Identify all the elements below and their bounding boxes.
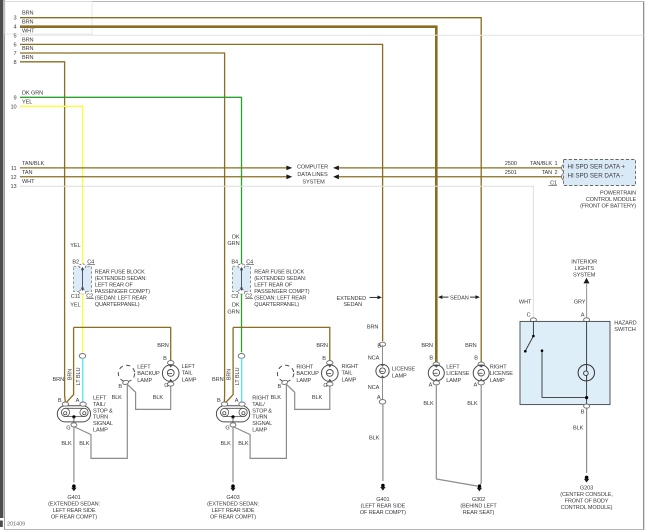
fuse block FB2 exit connector: [238, 290, 245, 295]
hazard switch lamp: [578, 365, 594, 381]
svg-text:TAIL/: TAIL/: [93, 402, 106, 408]
wire 10 YEL: [20, 106, 83, 264]
svg-text:PASSENGER COMPT): PASSENGER COMPT): [95, 289, 150, 295]
fuse block FB2 caption: [254, 269, 309, 308]
svg-text:BRN: BRN: [212, 377, 224, 383]
PCM pin 2 connector: [562, 174, 566, 180]
svg-text:LT BLU: LT BLU: [235, 368, 241, 386]
svg-text:TAIL: TAIL: [182, 371, 193, 377]
fuse block FB2 box: [233, 266, 251, 291]
svg-text:LICENSE: LICENSE: [392, 366, 415, 372]
wire 13 WHT: [20, 186, 533, 318]
svg-text:G403: G403: [226, 495, 239, 501]
svg-text:A: A: [581, 313, 585, 319]
svg-text:BRN: BRN: [316, 343, 328, 349]
node INTERIOR LIGHTS SYSTEM: [571, 260, 597, 284]
lamp E3 caption: [182, 364, 197, 383]
svg-text:GRN: GRN: [227, 241, 239, 247]
inline connector on left A wire: [79, 354, 86, 359]
svg-text:LICENSE: LICENSE: [446, 371, 469, 377]
hazard switch caption: [614, 321, 636, 333]
fuse block FB1 connector C2: [86, 294, 94, 300]
lamp E9 terminal B connector: [478, 362, 484, 366]
svg-text:G: G: [323, 383, 327, 389]
lamp E9 caption: [490, 365, 513, 384]
svg-text:B: B: [163, 356, 167, 362]
svg-text:LIGHTS: LIGHTS: [574, 266, 594, 272]
svg-text:B: B: [377, 344, 381, 350]
svg-text:C: C: [527, 313, 531, 319]
wire 12 TAN left segment: [20, 176, 286, 178]
svg-text:LEFT: LEFT: [446, 365, 460, 371]
svg-text:DK: DK: [232, 303, 240, 309]
lamp E4 terminal G connector: [230, 423, 236, 427]
svg-text:SEDAN: SEDAN: [343, 302, 362, 308]
lamp E5: RIGHT BACKUP LAMP: [277, 365, 293, 381]
fuse block FB1 internal arrow: [81, 267, 84, 291]
svg-text:11: 11: [11, 166, 17, 172]
svg-text:LEFT: LEFT: [93, 396, 107, 402]
lamp E5 caption: [296, 365, 319, 384]
svg-text:13: 13: [11, 184, 17, 190]
svg-text:NCA: NCA: [368, 355, 380, 361]
svg-text:1: 1: [555, 161, 558, 167]
ground G401 (license): [360, 484, 406, 516]
svg-text:LAMP: LAMP: [392, 373, 407, 379]
arrow left w12 right segment: [333, 174, 339, 179]
PCM caption: [580, 191, 636, 210]
svg-text:YEL: YEL: [70, 243, 80, 249]
hazard switch S1 box: [520, 321, 610, 404]
fuse block FB1 entry connector: [79, 264, 86, 269]
svg-text:12: 12: [11, 175, 17, 181]
lamp E5 terminal B connector: [281, 380, 288, 385]
svg-text:BLK: BLK: [153, 395, 164, 401]
svg-text:LEFT REAR SIDE: LEFT REAR SIDE: [53, 508, 96, 514]
lamp E1 caption: [93, 396, 113, 434]
svg-text:BLK: BLK: [238, 441, 249, 447]
wire LT BLU to lamp E4 terminal A: [241, 358, 243, 404]
wire 9 DK GRN: [20, 97, 242, 264]
svg-text:G203: G203: [580, 485, 593, 491]
lamp E6 bulb: [322, 365, 339, 382]
svg-text:(EXTENDED SEDAN:: (EXTENDED SEDAN:: [48, 502, 100, 508]
svg-text:GRY: GRY: [574, 299, 586, 305]
svg-text:YEL: YEL: [70, 302, 80, 308]
svg-text:LAMP: LAMP: [342, 377, 357, 383]
svg-text:DATA LINES: DATA LINES: [297, 172, 328, 178]
svg-text:GRN: GRN: [227, 309, 239, 315]
hazard switch contact dots: [532, 335, 535, 338]
hazard switch S1 terminal A connector: [584, 318, 590, 322]
fuse block FB2 connector C2: [245, 294, 253, 300]
svg-text:DK: DK: [232, 234, 240, 240]
svg-text:BRN: BRN: [157, 343, 169, 349]
svg-text:BRN: BRN: [226, 369, 232, 381]
svg-text:B: B: [474, 355, 478, 361]
svg-text:LAMP: LAMP: [182, 377, 197, 383]
fuse block FB2 label DK GRN above: [227, 234, 239, 247]
svg-text:4: 4: [14, 25, 17, 31]
svg-text:(LEFT REAR SIDE: (LEFT REAR SIDE: [361, 504, 406, 510]
svg-text:SWITCH: SWITCH: [614, 327, 635, 333]
lamp E4 center ground dot: [231, 415, 234, 418]
svg-text:LAMP: LAMP: [446, 378, 461, 384]
fuse block FB2 (right) entry connector: [239, 264, 245, 266]
wire YEL below fuse block FB1: [82, 294, 84, 353]
lamp E1: LEFT TAIL/STOP & TURN SIGNAL LAMP: [57, 406, 90, 422]
svg-text:BRN: BRN: [22, 20, 34, 26]
svg-text:BRN: BRN: [22, 37, 34, 43]
svg-text:BACKUP: BACKUP: [137, 371, 160, 377]
svg-text:REAR FUSE BLOCK: REAR FUSE BLOCK: [95, 269, 145, 275]
lamp E7 terminal B connector: [379, 342, 385, 346]
svg-text:EXTENDED: EXTENDED: [337, 296, 367, 302]
wire 8 BRN: [20, 62, 65, 403]
svg-text:2: 2: [555, 170, 558, 176]
wire BLK lamp E4 G to backup lamp E5: [234, 384, 287, 458]
svg-text:BLK: BLK: [467, 401, 478, 407]
lamp E8 terminal B connector: [433, 362, 439, 366]
lamp E2: LEFT BACKUP LAMP: [118, 365, 134, 381]
wire 6 BRN: [20, 44, 383, 341]
arrow right w11: [286, 166, 292, 171]
svg-text:RIGHT: RIGHT: [252, 396, 270, 402]
lamp E1 center ground dot: [72, 415, 75, 418]
svg-text:RIGHT: RIGHT: [490, 365, 508, 371]
wire 5 WHT: [20, 34, 644, 36]
svg-text:(CENTER CONSOLE,: (CENTER CONSOLE,: [560, 492, 613, 498]
label EXTENDED SEDAN with arrow: [337, 296, 382, 309]
hazard switch S1 internals: [526, 321, 587, 404]
svg-text:REAR SEAT): REAR SEAT): [463, 510, 495, 516]
svg-text:LEFT: LEFT: [137, 365, 151, 371]
svg-text:BLK: BLK: [79, 441, 90, 447]
wire DK GRN below fuse block FB2: [241, 294, 243, 353]
ground G401 (left): [48, 484, 100, 520]
lamp E2 terminal B connector: [122, 380, 129, 385]
svg-text:A: A: [235, 398, 239, 404]
svg-text:LAMP: LAMP: [490, 378, 505, 384]
svg-text:CONTROL MODULE): CONTROL MODULE): [561, 505, 613, 511]
lamp E6 caption: [342, 364, 360, 383]
svg-text:201409: 201409: [7, 522, 25, 528]
svg-text:(EXTENDED SEDAN:: (EXTENDED SEDAN:: [254, 276, 306, 282]
lamp E1 terminal G connector: [71, 423, 77, 427]
lamp E9 terminal A connector: [478, 381, 484, 385]
wire BLK lamp E2 B to tail lamp E3 G: [127, 384, 171, 410]
svg-text:SYSTEM: SYSTEM: [573, 272, 596, 278]
lamp E8 terminal A connector: [433, 381, 439, 385]
hazard switch terminal B connector: [584, 404, 590, 408]
svg-text:LEFT REAR OF: LEFT REAR OF: [95, 282, 134, 288]
svg-text:G: G: [225, 425, 229, 431]
fuse block FB2 internal arrow: [240, 267, 243, 291]
lamp E4: RIGHT TAIL/STOP & TURN SIGNAL LAMP: [216, 406, 249, 422]
fuse block FB2 entry connector: [238, 264, 245, 269]
svg-text:BRN: BRN: [22, 11, 34, 17]
svg-text:LICENSE: LICENSE: [490, 371, 513, 377]
svg-text:B: B: [118, 384, 122, 390]
svg-text:STOP &: STOP &: [93, 408, 113, 414]
lamp E6 terminal G connector: [327, 382, 333, 386]
svg-text:5: 5: [14, 33, 17, 39]
svg-text:3: 3: [14, 16, 17, 22]
svg-text:B: B: [58, 398, 62, 404]
svg-text:HAZARD: HAZARD: [614, 321, 636, 327]
svg-text:FRONT OF BODY: FRONT OF BODY: [565, 499, 609, 505]
svg-text:YEL: YEL: [22, 99, 32, 105]
wire BLK lamp E4 G to ground G403: [232, 427, 234, 483]
svg-text:BLK: BLK: [423, 401, 434, 407]
wire lamp E7 to connector: [382, 378, 384, 400]
svg-text:BRN: BRN: [67, 369, 73, 381]
svg-text:BLK: BLK: [220, 441, 231, 447]
wire BLK lamp E5 B to tail lamp E6 G: [286, 384, 330, 410]
svg-text:TAN/BLK: TAN/BLK: [22, 161, 44, 167]
ground G302: [460, 485, 497, 517]
label SEDAN with arrows: [438, 295, 480, 301]
svg-text:BLK: BLK: [112, 395, 123, 401]
svg-text:INTERIOR: INTERIOR: [571, 260, 597, 266]
svg-text:OF REAR COMPT): OF REAR COMPT): [360, 510, 406, 516]
svg-text:G401: G401: [376, 497, 389, 503]
svg-text:CONTROL MODULE: CONTROL MODULE: [586, 197, 637, 203]
svg-text:LAMP: LAMP: [93, 428, 108, 434]
wire 7 BRN: [20, 53, 225, 403]
inline connector below A: [379, 400, 386, 405]
svg-text:B4: B4: [231, 259, 238, 265]
svg-text:PASSENGER COMPT): PASSENGER COMPT): [254, 289, 309, 295]
svg-text:G302: G302: [472, 497, 485, 503]
svg-text:(SEDAN: LEFT REAR: (SEDAN: LEFT REAR: [254, 295, 306, 301]
svg-text:BLK: BLK: [271, 395, 282, 401]
svg-text:TAN: TAN: [542, 170, 552, 176]
connector label C1: [549, 180, 558, 186]
svg-text:2501: 2501: [505, 170, 517, 176]
arrow left w11 right segment: [333, 166, 339, 171]
svg-text:COMPUTER: COMPUTER: [297, 165, 328, 171]
fuse block FB2 label DK GRN below: [227, 303, 239, 316]
svg-text:BRN: BRN: [367, 325, 379, 331]
svg-text:G: G: [66, 425, 70, 431]
svg-text:2500: 2500: [505, 161, 517, 167]
svg-text:BLK: BLK: [61, 441, 72, 447]
lamp E3 bulb: [162, 365, 179, 382]
svg-text:(EXTENDED SEDAN:: (EXTENDED SEDAN:: [95, 276, 147, 282]
lamp E9: RIGHT LICENSE LAMP: [473, 365, 489, 381]
ground G403: [207, 484, 259, 520]
svg-text:B: B: [322, 356, 326, 362]
svg-text:BLK: BLK: [369, 435, 380, 441]
wire BRN branch right (feeds right tail lamp): [226, 327, 330, 402]
fuse block FB1 connector C4: [87, 259, 95, 265]
svg-text:A: A: [76, 398, 80, 404]
wire 4 BRN thick: [20, 27, 436, 363]
PCM module U1 box: [564, 160, 636, 186]
wire BLK hazard B to ground G203: [586, 409, 588, 474]
svg-text:8: 8: [14, 60, 17, 66]
svg-text:DK GRN: DK GRN: [22, 90, 43, 96]
fuse block FB2 connector C4: [246, 259, 254, 265]
svg-text:(FRONT OF BATTERY): (FRONT OF BATTERY): [580, 203, 636, 209]
svg-text:A: A: [473, 382, 477, 388]
svg-text:LEFT REAR OF: LEFT REAR OF: [254, 282, 293, 288]
svg-text:BRN: BRN: [421, 343, 433, 349]
svg-text:REAR FUSE BLOCK: REAR FUSE BLOCK: [254, 269, 304, 275]
svg-text:B: B: [429, 355, 433, 361]
svg-text:TURN: TURN: [93, 415, 108, 421]
svg-text:TAIL: TAIL: [342, 371, 353, 377]
svg-text:B2: B2: [72, 259, 79, 265]
svg-text:LAMP: LAMP: [137, 378, 152, 384]
svg-text:SIGNAL: SIGNAL: [93, 421, 113, 427]
svg-text:A: A: [429, 382, 433, 388]
lamp E1 terminal A connector: [80, 402, 86, 406]
wire 3 BRN: [20, 18, 481, 363]
lamp E1 terminal B connector: [62, 402, 68, 406]
svg-text:B: B: [217, 398, 221, 404]
svg-text:BACKUP: BACKUP: [296, 371, 319, 377]
ground G203: [560, 476, 613, 511]
arrow right w12: [286, 174, 292, 179]
svg-text:POWERTRAIN: POWERTRAIN: [600, 191, 636, 197]
wire 11 right segment TAN/BLK to PCM: [339, 167, 562, 169]
wire BLK lamp E1 G to backup lamp E2: [75, 384, 128, 458]
PCM pin 1 connector: [562, 165, 566, 171]
lamp E4 terminal B connector: [221, 402, 227, 406]
svg-text:STOP &: STOP &: [252, 408, 272, 414]
wire BLK lamp E1 G to ground G401: [73, 427, 75, 483]
lamp E7 caption: [392, 366, 415, 379]
svg-text:QUARTERPANEL): QUARTERPANEL): [95, 302, 140, 308]
lamp E7: LICENSE LAMP (extended sedan): [382, 345, 384, 364]
svg-text:6: 6: [14, 42, 17, 48]
svg-text:HI SPD SER DATA -: HI SPD SER DATA -: [568, 173, 624, 180]
wire LT BLU to lamp E1 terminal A: [82, 358, 84, 404]
lamp E4 terminal A connector: [239, 402, 245, 406]
svg-text:OF REAR COMPT): OF REAR COMPT): [51, 514, 97, 520]
svg-text:B: B: [277, 384, 281, 390]
hazard switch S1 terminal C connector: [530, 318, 536, 322]
svg-text:G: G: [164, 383, 168, 389]
fuse block FB1 caption: [95, 269, 150, 308]
svg-text:QUARTERPANEL): QUARTERPANEL): [254, 302, 299, 308]
svg-text:NCA: NCA: [368, 385, 380, 391]
svg-text:BRN: BRN: [22, 55, 34, 61]
svg-text:RIGHT: RIGHT: [342, 364, 360, 370]
lamp E8 caption: [446, 365, 469, 384]
svg-text:BRN: BRN: [22, 46, 34, 52]
svg-text:7: 7: [14, 51, 17, 57]
svg-text:BLK: BLK: [312, 395, 323, 401]
svg-text:SIGNAL: SIGNAL: [252, 421, 272, 427]
svg-text:SYSTEM: SYSTEM: [302, 180, 325, 186]
fuse block FB1 box: [74, 266, 92, 291]
svg-text:LAMP: LAMP: [296, 378, 311, 384]
svg-text:BRN: BRN: [53, 377, 65, 383]
svg-text:LEFT: LEFT: [182, 364, 196, 370]
svg-text:WHT: WHT: [22, 179, 35, 185]
wire 12 right segment TAN to PCM: [339, 176, 562, 178]
svg-text:(SEDAN: LEFT REAR: (SEDAN: LEFT REAR: [95, 295, 147, 301]
wire BLK lamp E8 to ground G302: [436, 385, 477, 486]
lamp E3 terminal G connector: [168, 382, 174, 386]
svg-text:RIGHT: RIGHT: [296, 365, 314, 371]
inline connector on right A wire: [238, 354, 245, 359]
lamp E2 caption: [137, 365, 160, 384]
svg-text:G401: G401: [67, 495, 80, 501]
wire GRY to hazard switch A: [586, 283, 588, 318]
svg-text:LEFT REAR SIDE: LEFT REAR SIDE: [212, 508, 255, 514]
svg-text:HI SPD SER DATA +: HI SPD SER DATA +: [568, 163, 626, 170]
svg-text:LT BLU: LT BLU: [76, 368, 82, 386]
svg-text:BRN: BRN: [465, 343, 477, 349]
svg-text:TAN/BLK: TAN/BLK: [530, 161, 552, 167]
node COMPUTER DATA LINES SYSTEM: [297, 165, 328, 186]
wire BRN branch left (feeds left tail lamp): [66, 327, 171, 402]
svg-text:9: 9: [14, 95, 17, 101]
svg-text:(BEHIND LEFT: (BEHIND LEFT: [460, 504, 497, 510]
svg-text:WHT: WHT: [22, 29, 35, 35]
svg-text:OF REAR COMPT): OF REAR COMPT): [210, 514, 256, 520]
svg-text:C11: C11: [71, 294, 81, 300]
lamp E8: LEFT LICENSE LAMP: [428, 365, 444, 381]
svg-text:10: 10: [11, 104, 17, 110]
svg-text:WHT: WHT: [519, 299, 532, 305]
svg-text:BLK: BLK: [573, 426, 584, 432]
svg-text:LAMP: LAMP: [252, 428, 267, 434]
lamp E4 caption: [252, 396, 272, 434]
fuse block FB1 exit connector: [79, 290, 86, 295]
wire BLK to ground G401b: [382, 404, 384, 481]
lamp E3 terminal B connector: [168, 361, 174, 365]
svg-text:C9: C9: [231, 294, 238, 300]
wire 11 TAN/BLK left segment: [20, 167, 286, 169]
svg-text:(EXTENDED SEDAN:: (EXTENDED SEDAN:: [207, 502, 259, 508]
svg-text:TAN: TAN: [22, 170, 32, 176]
wire BLK lamp E9 to ground G302: [480, 385, 481, 485]
svg-text:TAIL/: TAIL/: [252, 402, 265, 408]
lamp E6 terminal B connector: [327, 361, 333, 365]
svg-text:TURN: TURN: [252, 415, 267, 421]
svg-text:B: B: [581, 410, 585, 416]
svg-text:SEDAN: SEDAN: [450, 295, 469, 301]
